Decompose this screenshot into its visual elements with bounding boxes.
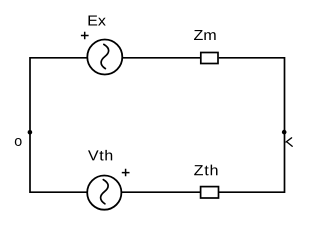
wire: top segment from box Zm to right corner	[219, 57, 285, 59]
wire: top segment from source Ex to box Zm	[123, 57, 200, 59]
label k	[286, 138, 292, 147]
node o: junction dot	[28, 130, 33, 135]
wire: bottom segment from right corner to box Zth	[219, 191, 285, 193]
label Zm	[194, 30, 216, 40]
label Zth	[194, 165, 217, 176]
box Zm	[201, 53, 218, 64]
wire: left vertical segment	[29, 57, 31, 193]
source Vth: plus polarity mark	[122, 169, 130, 177]
wire: bottom segment from box Zth to source Vth	[122, 191, 200, 193]
source Ex: plus polarity mark	[81, 32, 89, 40]
box Zth	[201, 187, 219, 198]
source Vth: sine symbol	[101, 180, 109, 204]
label Ex	[88, 15, 105, 25]
source Vth: circle body	[87, 176, 121, 210]
source Ex: circle body	[87, 40, 122, 75]
wire: bottom segment from source Vth to left corner	[30, 191, 87, 193]
wire: top segment from left corner to source Ex	[30, 57, 87, 59]
source Ex: sine symbol	[101, 44, 109, 68]
node k: junction dot	[282, 130, 287, 135]
label Vth	[88, 150, 112, 161]
wire: right vertical segment	[284, 57, 286, 193]
label o	[15, 138, 22, 146]
